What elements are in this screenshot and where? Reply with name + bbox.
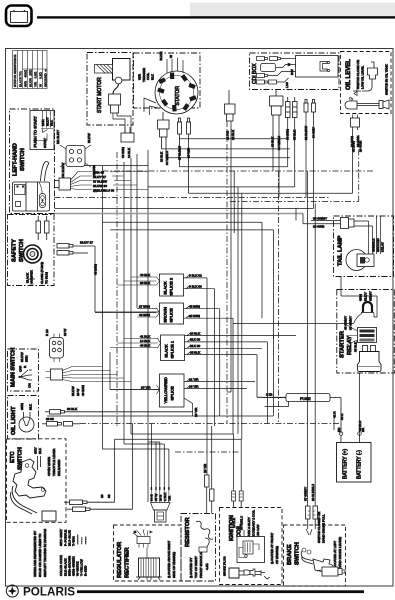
svg-text:TO RUN: TO RUN — [45, 272, 49, 284]
wire funnel feeds — [151, 424, 156, 488]
stator flywheel — [155, 71, 198, 114]
main switch fan connector — [46, 367, 132, 397]
svg-text:COLOR CODE: COLOR CODE — [59, 555, 63, 576]
svg-text:GRN/BLK: GRN/BLK — [372, 237, 376, 252]
wire run y167 — [180, 166, 288, 168]
tail lamp plug — [303, 217, 354, 229]
svg-text:(LOCATED ABOVE RIGHT: (LOCATED ABOVE RIGHT — [167, 541, 171, 578]
wire mesh lower — [47, 277, 377, 530]
svg-text:36: 36 — [107, 494, 111, 498]
svg-text:START MOTOR: START MOTOR — [97, 77, 103, 113]
wire relay top feeds — [341, 277, 377, 307]
wire brake B — [314, 203, 316, 506]
svg-text:SPARK PLUG: SPARK PLUG — [223, 556, 227, 576]
svg-text:GRY–GRAY: GRY–GRAY — [59, 529, 63, 546]
svg-text:TAIL LAMP: TAIL LAMP — [338, 235, 344, 266]
wire bundle v4 — [124, 162, 164, 487]
svg-text:20 GRN: 20 GRN — [313, 225, 324, 229]
safety switch bullets horizontal — [57, 241, 98, 276]
svg-text:OFF: OFF — [19, 366, 23, 372]
starter relay body — [358, 346, 382, 372]
brake switch lever drawing — [301, 548, 345, 576]
svg-text:SECONDARY 2 COIL: SECONDARY 2 COIL — [252, 510, 256, 540]
svg-text:45 BRN: 45 BRN — [94, 264, 98, 275]
wire v278 dashdot — [278, 171, 280, 423]
svg-text:RD: RD — [337, 427, 341, 432]
svg-text:RECTIFIER: RECTIFIER — [125, 547, 131, 578]
brake switch box — [284, 512, 346, 586]
svg-text:W/R 490Ω: W/R 490Ω — [23, 69, 27, 87]
svg-text:STARTER: STARTER — [340, 330, 346, 358]
svg-text:CLOSE (PUSH): CLOSE (PUSH) — [40, 262, 44, 284]
main switch box — [8, 348, 39, 391]
wire v207 — [206, 278, 208, 475]
svg-text:OPEN WHEN: OPEN WHEN — [47, 457, 51, 476]
regulator rectifier box — [114, 525, 182, 581]
oil level sensor — [353, 62, 378, 96]
wire bus y208 — [55, 207, 314, 209]
svg-text:YELLOW/RED: YELLOW/RED — [163, 377, 168, 403]
connector below oil level — [351, 115, 360, 131]
center funnel connector — [150, 487, 172, 522]
wire v214 — [214, 289, 216, 426]
black splice 2 — [117, 273, 215, 296]
wire gray bus — [232, 317, 234, 319]
header rule — [37, 16, 395, 18]
lh switch 4-pin connector — [56, 130, 96, 178]
wire v287 — [287, 117, 289, 167]
svg-text:MAIN SWITCH: MAIN SWITCH — [11, 348, 17, 387]
svg-text:09 BLU: 09 BLU — [358, 421, 362, 431]
svg-text:16 Y/R: 16 Y/R — [189, 384, 199, 388]
svg-text:FUSE: FUSE — [300, 396, 311, 401]
svg-text:TOP OF RIGHT: TOP OF RIGHT — [194, 556, 198, 578]
svg-text:18 Y/B: 18 Y/B — [203, 464, 207, 473]
svg-text:BLK: BLK — [151, 73, 155, 80]
wire dashdot bus y171 — [103, 170, 374, 172]
wire etc feed b — [132, 423, 134, 509]
svg-text:14 BLK: 14 BLK — [127, 147, 131, 158]
bullet row 33 BLK — [45, 407, 193, 414]
wire run y158 — [166, 157, 290, 159]
svg-text:BLACK: BLACK — [163, 281, 168, 294]
svg-text:SWITCH IN OIL TANK: SWITCH IN OIL TANK — [385, 63, 389, 95]
svg-text:05 BLK: 05 BLK — [354, 341, 358, 352]
wire bundle v3 dashdot — [116, 152, 118, 426]
svg-text:13 BLK: 13 BLK — [271, 136, 275, 147]
start motor lead + connector — [109, 84, 132, 133]
wire mesh verticals left bundle — [95, 150, 241, 509]
main switch 4-circle connector — [45, 329, 67, 362]
svg-text:40 BLK: 40 BLK — [140, 273, 151, 277]
svg-text:SOLID OR DASHED LINES TO: SOLID OR DASHED LINES TO — [38, 533, 42, 577]
svg-text:HAND BRAKE LEVER): HAND BRAKE LEVER) — [338, 537, 342, 569]
svg-text:16 W: 16 W — [76, 389, 80, 396]
etc inline connectors — [64, 494, 133, 511]
wire v294 — [294, 117, 296, 187]
brown splice — [95, 303, 233, 324]
svg-text:04 W/BLU: 04 W/BLU — [277, 136, 281, 150]
svg-text:BLK/W: BLK/W — [87, 133, 91, 143]
notes text block — [33, 529, 47, 577]
svg-text:19 Y/R: 19 Y/R — [194, 407, 198, 417]
svg-text:SAFETY: SAFETY — [12, 239, 18, 262]
start motor body — [95, 59, 131, 84]
svg-text:20 BLK/BLU: 20 BLK/BLU — [311, 484, 315, 501]
left-hand switch box — [10, 109, 55, 214]
svg-text:PUSH TO START: PUSH TO START — [33, 115, 38, 147]
svg-text:(B)BLK/BLU 60: (B)BLK/BLU 60 — [93, 188, 114, 192]
svg-text:(LOCATED AT FRONT: (LOCATED AT FRONT — [270, 533, 274, 564]
header battery icon — [6, 6, 32, 27]
svg-text:START: START — [43, 138, 47, 148]
svg-text:SWITCH: SWITCH — [295, 542, 301, 565]
svg-text:BLK/R .25Ω: BLK/R .25Ω — [28, 69, 32, 87]
svg-text:BLK/Y: BLK/Y — [364, 292, 368, 301]
svg-text:9 BLK 02: 9 BLK 02 — [189, 274, 202, 278]
connector 21PB/12BLK below cdi — [225, 90, 236, 140]
svg-text:21 Y/R: 21 Y/R — [189, 377, 199, 381]
svg-text:LEFT-HAND: LEFT-HAND — [13, 143, 19, 176]
svg-text:Y/R 0.5Ω: Y/R 0.5Ω — [33, 71, 37, 87]
wire bus y165 — [84, 165, 148, 167]
stator resistance table — [13, 51, 48, 89]
svg-text:33 BLK: 33 BLK — [67, 407, 78, 411]
wire v313 — [313, 117, 315, 208]
wire color legend — [59, 529, 88, 576]
wire v241 — [241, 193, 243, 439]
stator leads — [144, 58, 183, 116]
svg-text:6 E2: 6 E2 — [266, 393, 273, 397]
svg-text:20 BLK: 20 BLK — [140, 281, 151, 285]
svg-text:STATOR RESISTANCE: STATOR RESISTANCE — [13, 55, 17, 87]
svg-text:OF ENGINE): OF ENGINE) — [275, 546, 279, 564]
svg-text:BLK: BLK — [29, 403, 33, 410]
svg-text:1 BLK: 1 BLK — [163, 492, 167, 501]
svg-text:41 R: 41 R — [333, 411, 337, 418]
bullet connector row below cdi — [286, 97, 298, 140]
svg-text:40 BLK: 40 BLK — [140, 343, 151, 347]
regulator heatsink — [136, 548, 162, 581]
resistor element — [196, 521, 213, 552]
stator bullet connectors — [178, 118, 191, 193]
starter relay inline connector — [344, 316, 377, 352]
svg-text:HAND BRAKE PULL: HAND BRAKE PULL — [322, 514, 326, 543]
wire mesh mid-right verticals — [162, 117, 361, 506]
svg-text:BLK: BLK — [50, 119, 54, 126]
svg-text:W/R: W/R — [138, 73, 142, 80]
footer rule — [77, 590, 364, 593]
svg-text:R–RED: R–RED — [84, 565, 88, 576]
wire 45 BRN safety — [95, 246, 160, 312]
svg-text:RELEASED: RELEASED — [57, 459, 61, 476]
wire tail feeds — [296, 208, 303, 223]
svg-text:GRN: GRN — [20, 403, 24, 410]
wire dashdot bus y423 — [80, 423, 340, 425]
svg-text:10 BLK: 10 BLK — [190, 331, 201, 335]
wire bus y229 — [110, 230, 273, 339]
svg-text:BRN: BRN — [41, 119, 45, 126]
svg-text:SPLICE: SPLICE — [170, 386, 175, 401]
svg-text:SPLICE 1: SPLICE 1 — [170, 340, 175, 358]
wire 12 BLK — [227, 121, 231, 392]
ignition coil box — [220, 508, 283, 585]
tail lamp bulb — [346, 250, 374, 271]
small bullets pair right — [304, 100, 316, 141]
cdi internals — [257, 56, 339, 89]
svg-text:30 R: 30 R — [340, 413, 344, 420]
svg-text:RELAY: RELAY — [347, 336, 353, 355]
svg-text:GROUND ∞: GROUND ∞ — [43, 69, 47, 87]
lh switch lever drawing — [13, 162, 50, 211]
wire v257 to fuse — [257, 396, 262, 398]
svg-text:BLACK TO:: BLACK TO: — [18, 71, 22, 87]
svg-text:BROWN: BROWN — [163, 307, 168, 322]
battery box — [337, 427, 372, 482]
svg-text:SWITCH CLOSE ON: SWITCH CLOSE ON — [356, 60, 360, 89]
svg-text:(LOCATED BY: (LOCATED BY — [189, 558, 193, 578]
svg-text:SPLICE 2: SPLICE 2 — [169, 277, 174, 295]
svg-text:BLK/Y 17: BLK/Y 17 — [80, 241, 93, 245]
svg-text:20 Y/R: 20 Y/R — [141, 385, 151, 389]
svg-text:13 BLK: 13 BLK — [160, 151, 164, 162]
yellow red splice — [110, 374, 255, 417]
svg-text:25 BRN: 25 BRN — [189, 314, 200, 318]
wire brake A — [307, 171, 309, 506]
black splice 1 — [110, 331, 296, 360]
svg-text:SIDE OF ENGINE): SIDE OF ENGINE) — [172, 552, 176, 578]
wire dashdot bus y197.5 — [55, 197, 331, 199]
svg-text:W: W — [287, 63, 291, 66]
wire run y139 — [180, 138, 288, 140]
wire splice1 exit turns — [257, 336, 273, 424]
svg-text:SIMPLIFY TRACING IN DIAGRAM: SIMPLIFY TRACING IN DIAGRAM — [43, 529, 47, 577]
svg-text:BLK: BLK — [38, 447, 42, 454]
wire bus y222 — [103, 222, 263, 318]
svg-text:12 BLK: 12 BLK — [231, 129, 235, 140]
svg-text:05 BLK: 05 BLK — [190, 350, 201, 354]
svg-text:45 BRN: 45 BRN — [189, 305, 200, 309]
svg-text:RESISTOR: RESISTOR — [185, 517, 191, 547]
svg-text:10: 10 — [100, 494, 104, 498]
svg-text:SWITCH: SWITCH — [20, 148, 26, 171]
starter relay box — [337, 290, 395, 374]
svg-text:W 0.2Ω: W 0.2Ω — [38, 72, 42, 87]
svg-text:GRY: GRY — [34, 447, 38, 454]
wire bus y193 — [189, 130, 353, 193]
regulator connector + leads — [133, 530, 153, 548]
etc switch body drawing — [11, 459, 56, 521]
svg-text:45 GRN/Y: 45 GRN/Y — [344, 316, 348, 330]
footer polaris star — [6, 585, 18, 597]
svg-text:LOW OIL LEVEL: LOW OIL LEVEL — [361, 65, 365, 89]
safety switch box — [8, 215, 55, 286]
svg-text:16 W: 16 W — [63, 329, 67, 336]
wire bundle v7 — [148, 150, 160, 502]
cdi box — [250, 53, 340, 90]
svg-text:16 W/B: 16 W/B — [187, 148, 191, 158]
wire run y149 — [162, 148, 291, 150]
wire v262 tail — [257, 396, 286, 398]
wire bundle v6 — [136, 154, 138, 308]
svg-text:W: W — [169, 55, 173, 58]
resistor feed bullets — [203, 464, 214, 514]
wire y416 run — [47, 415, 193, 417]
wire y416 to v273 — [193, 415, 273, 417]
svg-text:OIL LIGHT: OIL LIGHT — [11, 406, 17, 435]
svg-text:BRAKE: BRAKE — [287, 544, 293, 565]
bullet row 26 08 — [42, 417, 80, 426]
svg-text:24 B: 24 B — [159, 495, 163, 501]
tail lamp box — [334, 216, 394, 277]
svg-text:BATTERY (-): BATTERY (-) — [357, 450, 363, 479]
svg-text:4.3Ω: 4.3Ω — [205, 563, 209, 570]
svg-text:BLK/W 60: BLK/W 60 — [93, 184, 107, 188]
svg-text:BLK/W: BLK/W — [71, 386, 75, 396]
svg-text:26 GRN: 26 GRN — [356, 136, 360, 147]
svg-text:GROUND: GROUND — [376, 237, 380, 252]
svg-text:OR BLK/W: OR BLK/W — [61, 163, 65, 178]
wire v306 — [305, 117, 307, 198]
wire 21 P/B dashdot — [226, 121, 228, 423]
stator trigger coil labels — [138, 51, 174, 82]
svg-text:BATTERY (+): BATTERY (+) — [343, 449, 349, 479]
lh switch fan connector — [55, 170, 149, 192]
wire relay feed2 — [341, 345, 344, 347]
svg-text:26 08: 26 08 — [46, 417, 54, 421]
svg-text:04 W/BLU: 04 W/BLU — [240, 516, 244, 530]
wire bus y213 gray — [55, 213, 304, 215]
wire bundle v2 — [110, 352, 160, 390]
safety switch bullets vertical — [36, 216, 49, 240]
svg-text:–·–·–: –·–·– — [84, 536, 88, 544]
stator output connector A — [158, 112, 170, 165]
svg-text:R 13: R 13 — [45, 329, 49, 336]
wire lh fan run1 — [147, 171, 149, 173]
svg-text:DELAY: DELAY — [381, 242, 385, 252]
cdi T-connector — [270, 90, 284, 198]
svg-text:WIRES ARE REPRESENTED BY: WIRES ARE REPRESENTED BY — [33, 531, 37, 577]
brake wire bullets — [304, 484, 318, 529]
svg-text:07 GRN/Y: 07 GRN/Y — [304, 487, 308, 501]
wire bundle v5 — [131, 158, 234, 494]
wire ignition stubs — [232, 491, 244, 508]
start motor 2-pin connector — [121, 127, 134, 158]
svg-text:ETC: ETC — [10, 451, 16, 463]
svg-text:BRN: BRN — [25, 355, 29, 362]
oil light bulb — [19, 403, 34, 432]
svg-text:03 GRN/Y: 03 GRN/Y — [349, 316, 353, 330]
starter relay coil clip — [233, 291, 377, 323]
ignition coil inner — [237, 530, 265, 563]
etc switch box — [7, 439, 67, 523]
header tab band — [190, 3, 395, 17]
oil level float sender — [345, 97, 389, 109]
svg-text:REGULATOR: REGULATOR — [117, 541, 123, 578]
svg-text:BLK/W: BLK/W — [20, 352, 24, 362]
wire dashdot y452 — [175, 451, 240, 453]
svg-text:BLK 09: BLK 09 — [190, 338, 200, 342]
oil level box — [341, 52, 392, 114]
push to start box — [30, 111, 54, 150]
wire v238 — [237, 187, 239, 434]
svg-text:46 BRN: 46 BRN — [81, 385, 85, 396]
svg-text:LBS: LBS — [285, 82, 289, 88]
wire bundle v1 — [103, 166, 169, 487]
svg-text:BLK 60: BLK 60 — [190, 344, 200, 348]
start motor box — [87, 53, 133, 126]
svg-text:14 BLK: 14 BLK — [140, 339, 151, 343]
svg-text:SPLICE: SPLICE — [169, 308, 174, 323]
wire etc feed a — [115, 439, 242, 502]
svg-text:GRN: GRN — [359, 294, 363, 301]
wire fuse feeds down — [265, 373, 360, 435]
svg-text:41 BLK: 41 BLK — [140, 334, 151, 338]
stator box — [134, 53, 201, 108]
svg-text:STATOR: STATOR — [175, 86, 181, 106]
svg-text:B/W: B/W — [290, 69, 294, 75]
fuse — [262, 393, 341, 434]
svg-text:10 BLK: 10 BLK — [232, 517, 236, 528]
spark plug drawing — [229, 568, 270, 579]
svg-text:9 BLK 60: 9 BLK 60 — [189, 285, 202, 289]
wire bus y187 — [148, 186, 295, 188]
svg-text:COIL: COIL — [146, 72, 150, 80]
tail lamp bulb feeds — [354, 217, 385, 255]
svg-text:ON: ON — [28, 383, 32, 388]
resistor box — [181, 514, 216, 582]
svg-text:OIL LEVEL: OIL LEVEL — [346, 59, 352, 90]
svg-text:BLK/Y 17: BLK/Y 17 — [93, 175, 106, 179]
oil light box — [8, 396, 39, 440]
svg-text:06 BRN: 06 BRN — [121, 147, 125, 158]
svg-text:Y: Y — [149, 531, 153, 533]
svg-text:20 BRN: 20 BRN — [350, 136, 354, 147]
wire mesh horizontals upper — [55, 130, 374, 339]
wire v219 — [212, 309, 220, 482]
wire v234 — [233, 171, 234, 434]
svg-text:Y/R: Y/R — [168, 495, 172, 501]
safety switch tether button — [24, 245, 49, 284]
svg-text:PΟLARIS: PΟLARIS — [23, 587, 75, 599]
svg-text:BLACK: BLACK — [164, 344, 169, 357]
svg-text:(LOCATED AT LEFT: (LOCATED AT LEFT — [333, 541, 337, 569]
wire bus y201 dashdot — [230, 135, 359, 202]
svg-text:37 BLK/W: 37 BLK/W — [93, 179, 107, 183]
svg-text:BLK/R: BLK/R — [159, 51, 163, 61]
svg-text:NR BLK/Y: NR BLK/Y — [56, 130, 60, 144]
svg-text:THROTTLE LEVER: THROTTLE LEVER — [52, 448, 56, 476]
